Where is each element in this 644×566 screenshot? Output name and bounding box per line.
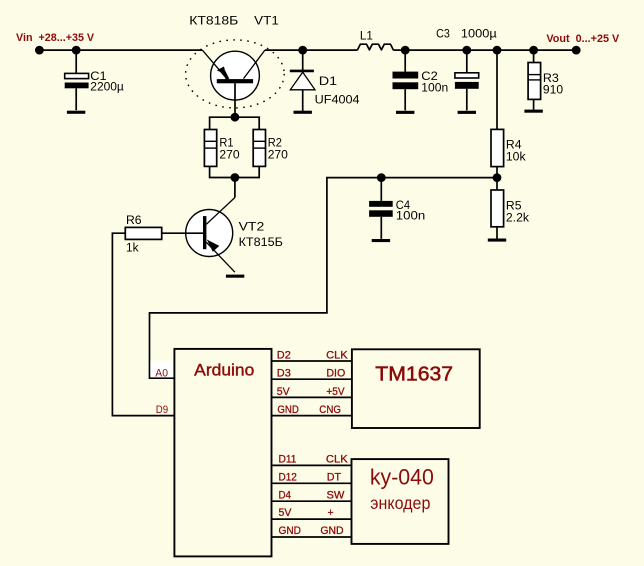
svg-text:1000µ: 1000µ bbox=[461, 27, 497, 41]
svg-text:D4: D4 bbox=[279, 489, 292, 501]
node junction C3 bbox=[462, 46, 471, 55]
svg-text:Arduino: Arduino bbox=[194, 361, 254, 379]
wire pin D2-CLK bbox=[272, 360, 352, 362]
capacitor C3 bbox=[455, 50, 479, 110]
svg-text:D9: D9 bbox=[156, 404, 168, 416]
svg-text:TM1637: TM1637 bbox=[375, 362, 453, 385]
wire pin GND-GND bbox=[272, 536, 352, 538]
svg-text:270: 270 bbox=[268, 147, 288, 161]
wire R1R2 top rail bbox=[210, 117, 260, 129]
svg-text:910: 910 bbox=[543, 83, 563, 97]
node junction R1R2 top bbox=[231, 113, 240, 122]
wire pin D3-DIO bbox=[272, 378, 352, 380]
wire VT2 collector vertical bbox=[234, 178, 236, 198]
svg-text:1k: 1k bbox=[126, 240, 139, 254]
capacitor C1 bbox=[65, 73, 89, 110]
svg-text:2200µ: 2200µ bbox=[90, 79, 124, 93]
capacitor C4 bbox=[369, 178, 393, 239]
VT1 case dotted ellipse bbox=[186, 40, 285, 108]
box Arduino bbox=[174, 349, 271, 557]
node junction R1R2 bottom bbox=[231, 173, 240, 182]
svg-text:D11: D11 bbox=[279, 454, 297, 466]
svg-text:100n: 100n bbox=[396, 208, 425, 222]
svg-text:КТ818Б: КТ818Б bbox=[189, 13, 238, 27]
wire pin 5V-plus bbox=[272, 518, 352, 520]
box TM1637 bbox=[352, 349, 480, 428]
node junction C2 bbox=[401, 46, 410, 55]
svg-text:VT1: VT1 bbox=[254, 13, 279, 27]
resistor R2 bbox=[253, 130, 265, 167]
node A0 label backdrop bbox=[150, 361, 173, 378]
svg-text:5V: 5V bbox=[279, 507, 292, 519]
wire main rail middle segment bbox=[265, 49, 358, 51]
wire feedback horizontal bbox=[150, 178, 498, 379]
ground C2 bbox=[396, 111, 414, 114]
wire pin D4-SW bbox=[272, 500, 352, 502]
capacitor C2 bbox=[393, 50, 419, 110]
ground R5 bbox=[488, 239, 506, 242]
transistor VT1 bbox=[202, 50, 265, 100]
svg-text:Vout 0...+25 V: Vout 0...+25 V bbox=[546, 33, 619, 45]
node junction C1 bbox=[72, 46, 81, 55]
resistor R5 bbox=[491, 178, 504, 239]
svg-text:КТ815Б: КТ815Б bbox=[239, 235, 283, 249]
wire pin GND-CNG bbox=[272, 415, 352, 417]
svg-text:DIO: DIO bbox=[326, 368, 345, 380]
resistor R3 bbox=[528, 50, 541, 109]
svg-text:5V: 5V bbox=[277, 386, 290, 398]
wire VT1 base down bbox=[234, 83, 236, 117]
svg-text:2.2k: 2.2k bbox=[506, 210, 530, 224]
wire R1R2 bottom rail bbox=[210, 166, 260, 177]
node junction R4R5 bbox=[493, 173, 502, 182]
svg-text:ky-040: ky-040 bbox=[370, 464, 434, 489]
ground C4 bbox=[372, 239, 390, 242]
wire C1 stem top bbox=[75, 50, 77, 74]
svg-text:C3: C3 bbox=[436, 27, 450, 41]
transistor VT2 bbox=[186, 198, 235, 273]
ground D1 bbox=[294, 111, 312, 114]
resistor R1 bbox=[204, 130, 216, 167]
diode D1 bbox=[290, 46, 315, 111]
wire pin D12-DT bbox=[272, 482, 352, 484]
wire R6 to D9 bbox=[112, 233, 174, 415]
svg-text:D12: D12 bbox=[279, 471, 297, 483]
resistor R6 bbox=[125, 227, 203, 239]
svg-text:CLK: CLK bbox=[326, 454, 348, 466]
node junction R3 bbox=[529, 46, 538, 55]
svg-text:+5V: +5V bbox=[326, 386, 345, 398]
svg-text:UF4004: UF4004 bbox=[315, 92, 360, 106]
svg-text:SW: SW bbox=[327, 489, 345, 501]
node junction C4 bbox=[377, 173, 386, 182]
wire main rail right segment bbox=[393, 49, 576, 51]
box ky-040 bbox=[352, 459, 449, 544]
node junction R4 top bbox=[493, 46, 502, 55]
svg-text:+: + bbox=[328, 507, 334, 519]
svg-text:GND: GND bbox=[320, 525, 343, 537]
svg-text:GND: GND bbox=[279, 525, 302, 537]
svg-text:D1: D1 bbox=[319, 74, 338, 88]
node Vin terminal bbox=[35, 46, 44, 55]
ground C3 bbox=[458, 111, 476, 114]
svg-text:D2: D2 bbox=[277, 349, 291, 361]
svg-text:D3: D3 bbox=[277, 368, 291, 380]
ground C1 bbox=[67, 111, 85, 114]
svg-text:10k: 10k bbox=[506, 149, 527, 163]
svg-text:VT2: VT2 bbox=[239, 219, 265, 233]
svg-text:DT: DT bbox=[327, 471, 341, 483]
wire pin D11-CLK bbox=[272, 464, 352, 466]
svg-text:энкодер: энкодер bbox=[370, 493, 430, 513]
svg-text:CNG: CNG bbox=[319, 404, 341, 416]
svg-text:R6: R6 bbox=[126, 213, 142, 227]
svg-text:A0: A0 bbox=[155, 367, 168, 379]
wire main rail left segment bbox=[39, 49, 202, 51]
svg-text:Vin +28...+35 V: Vin +28...+35 V bbox=[16, 32, 95, 44]
svg-text:L1: L1 bbox=[360, 28, 373, 42]
ground R3 bbox=[524, 110, 542, 113]
wire pin 5V-+5V bbox=[272, 396, 352, 398]
inductor L1 bbox=[357, 44, 393, 50]
svg-text:100n: 100n bbox=[421, 81, 448, 95]
svg-text:GND: GND bbox=[277, 404, 299, 416]
svg-text:CLK: CLK bbox=[326, 349, 348, 361]
ground VT2 emitter bbox=[226, 275, 244, 278]
svg-text:270: 270 bbox=[219, 147, 239, 161]
node Vout terminal bbox=[572, 46, 581, 55]
resistor R4 bbox=[491, 50, 504, 178]
